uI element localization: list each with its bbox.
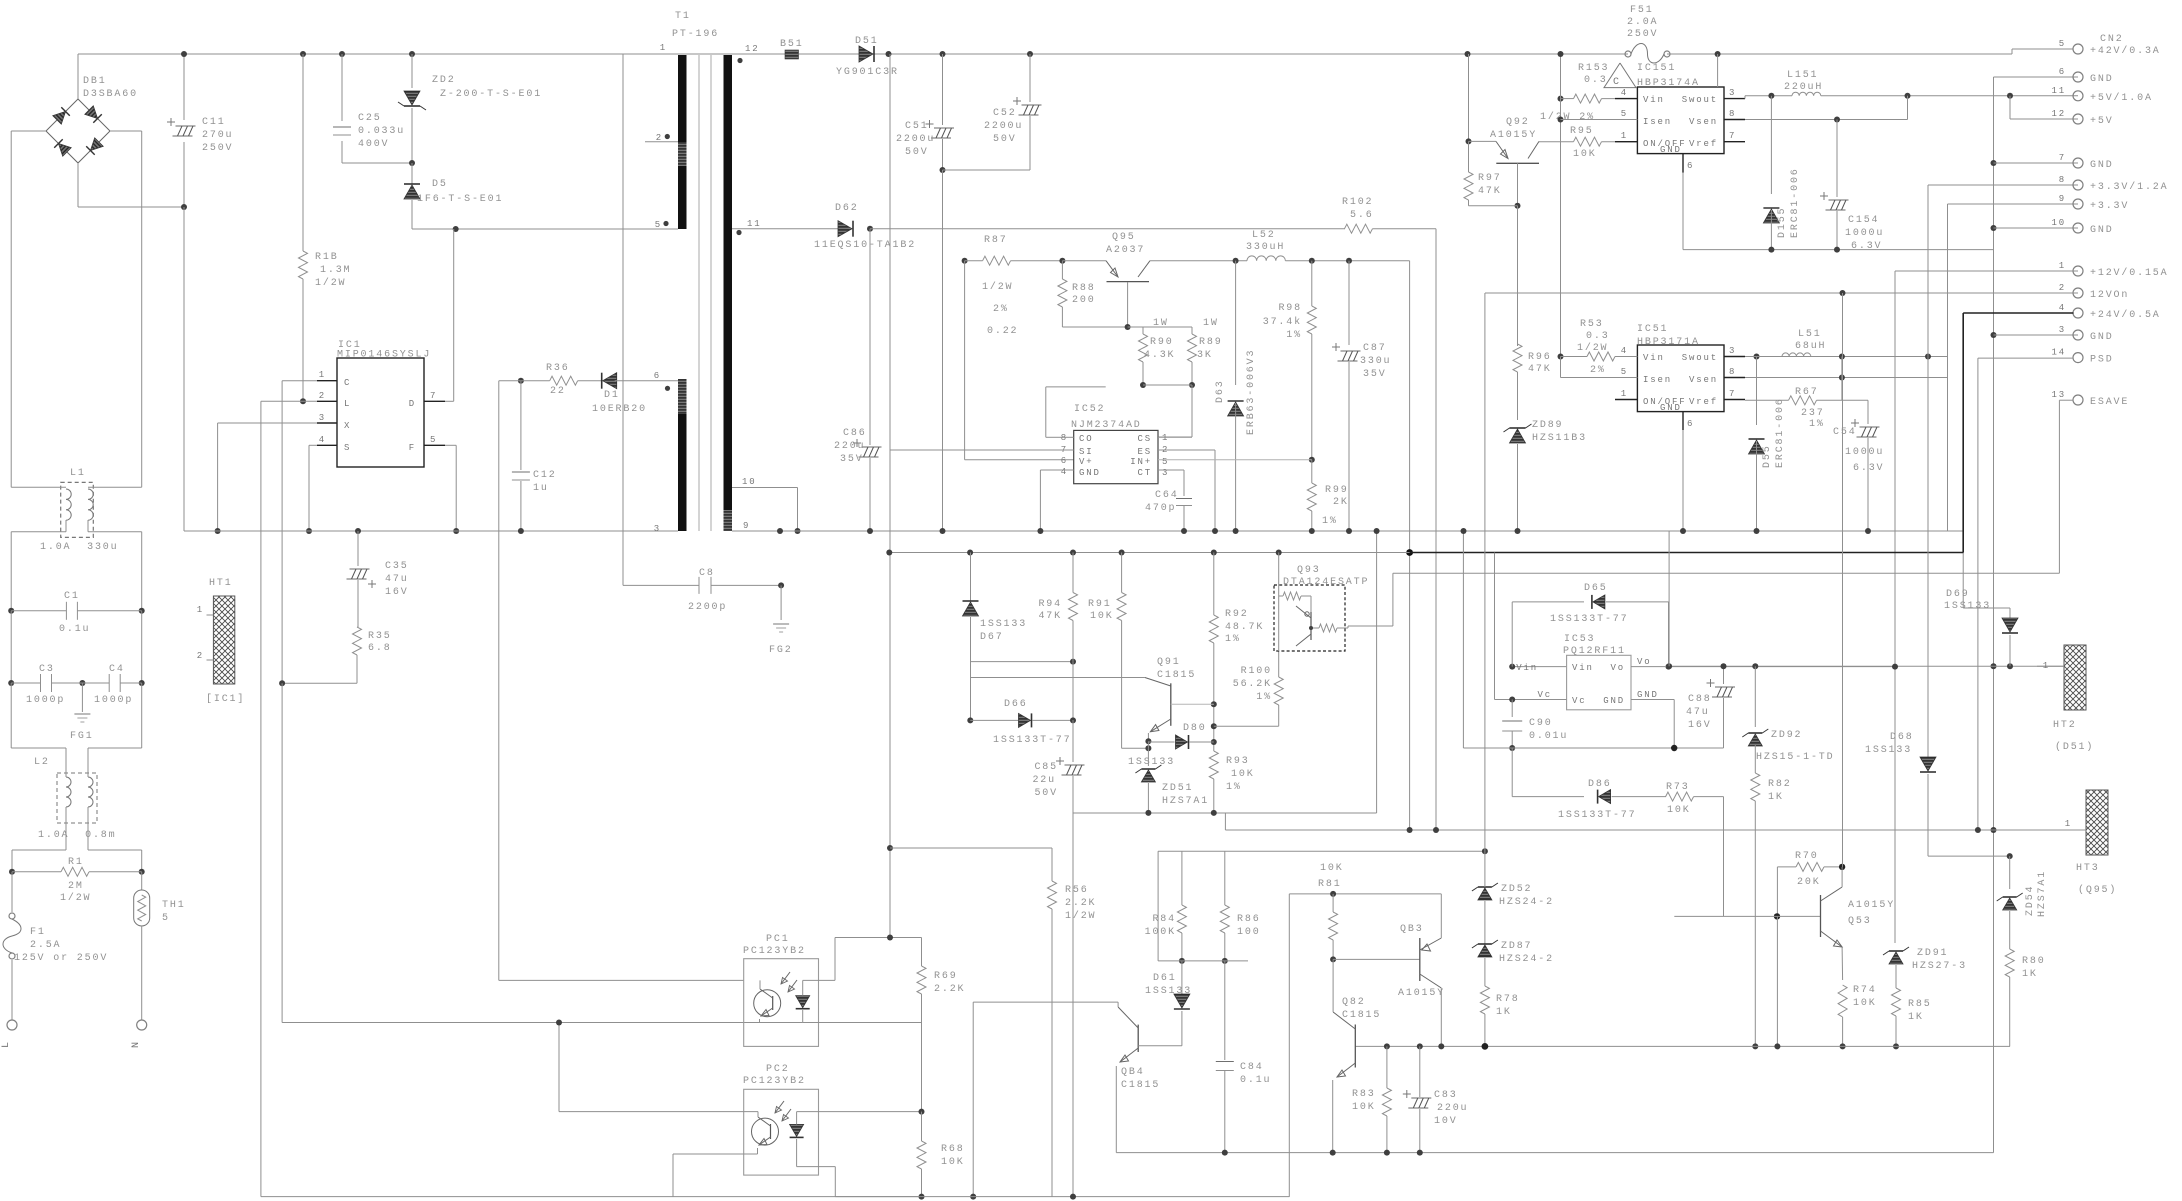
svg-text:PC123YB2: PC123YB2	[743, 946, 806, 957]
IC1 pin 7 D	[424, 400, 445, 402]
svg-text:L151: L151	[1787, 70, 1818, 81]
svg-text:237: 237	[1801, 408, 1825, 419]
IC51 pin 3 Swout	[1724, 356, 1745, 358]
svg-text:+42V/0.3A: +42V/0.3A	[2090, 45, 2161, 57]
svg-text:PC1: PC1	[766, 934, 790, 945]
svg-text:DB1: DB1	[83, 76, 107, 87]
svg-text:1K: 1K	[1908, 1012, 1924, 1023]
svg-text:IC53: IC53	[1564, 634, 1595, 645]
diode D69	[1963, 607, 2010, 609]
svg-text:L51: L51	[1798, 329, 1822, 340]
svg-text:R74: R74	[1853, 985, 1877, 996]
svg-text:2.2K: 2.2K	[1065, 898, 1096, 909]
IC51 pin 6 GND	[1682, 412, 1684, 430]
capacitor C3	[8, 680, 14, 686]
svg-text:IN+: IN+	[1130, 457, 1152, 467]
svg-text:SI: SI	[1079, 447, 1094, 457]
svg-text:10ERB20: 10ERB20	[592, 404, 647, 415]
resistor R82	[1754, 745, 1756, 773]
IC1 pin 1 C	[317, 380, 337, 382]
capacitor C86	[869, 229, 871, 445]
diode D66	[1019, 713, 1031, 727]
svg-text:2200p: 2200p	[688, 602, 727, 613]
svg-text:C52: C52	[993, 108, 1017, 119]
svg-text:1%: 1%	[1225, 634, 1241, 645]
resistor R97	[1468, 141, 1470, 172]
svg-text:8: 8	[2059, 175, 2066, 185]
svg-text:220u: 220u	[834, 441, 865, 452]
svg-text:CO: CO	[1079, 434, 1094, 444]
svg-text:CN2: CN2	[2100, 34, 2124, 45]
transformer T1 primary bar lower	[678, 379, 687, 414]
svg-text:250V: 250V	[202, 143, 233, 154]
svg-text:9: 9	[2059, 194, 2066, 204]
svg-text:330uH: 330uH	[1246, 242, 1285, 253]
svg-text:(D51): (D51)	[2055, 741, 2094, 753]
svg-text:1: 1	[2059, 261, 2066, 271]
svg-text:R99: R99	[1325, 485, 1349, 496]
svg-text:D86: D86	[1588, 779, 1612, 790]
svg-text:1000u: 1000u	[1845, 447, 1884, 458]
svg-text:10: 10	[2051, 218, 2066, 228]
wire snubber to T1 pin5 row	[412, 228, 678, 230]
wire emitter node	[1147, 741, 1149, 748]
CN2 pin 8 +3.3V/1.2A	[2073, 180, 2083, 190]
svg-text:1.0A 0.8m: 1.0A 0.8m	[38, 830, 117, 841]
svg-text:C64: C64	[1155, 490, 1179, 501]
svg-text:R67: R67	[1795, 387, 1819, 398]
svg-text:10K: 10K	[1231, 769, 1255, 780]
svg-text:GND: GND	[1079, 468, 1101, 478]
svg-text:Vin: Vin	[1516, 663, 1538, 673]
svg-text:R68: R68	[941, 1144, 965, 1155]
svg-text:D66: D66	[1004, 699, 1028, 710]
zener ZD92	[1754, 666, 1756, 727]
svg-text:T1: T1	[675, 11, 691, 22]
svg-text:5: 5	[1621, 109, 1628, 119]
svg-text:GND: GND	[1603, 696, 1625, 706]
svg-text:1%: 1%	[1286, 330, 1302, 341]
svg-text:47K: 47K	[1528, 364, 1552, 375]
svg-text:C8: C8	[699, 568, 715, 579]
svg-text:35V: 35V	[840, 454, 864, 465]
svg-text:IC151: IC151	[1637, 63, 1676, 74]
svg-text:1.0A 330u: 1.0A 330u	[40, 542, 119, 553]
wire L1 wiring	[10, 131, 12, 487]
svg-text:D55: D55	[1762, 444, 1773, 468]
CN2 pin 10 GND	[2073, 223, 2083, 233]
svg-text:PQ12RF11: PQ12RF11	[1563, 646, 1626, 657]
svg-text:IC51: IC51	[1637, 324, 1668, 335]
svg-text:S: S	[344, 443, 351, 453]
IC151 pin 7 Vref	[1724, 141, 1745, 143]
svg-text:C4: C4	[109, 664, 125, 675]
svg-text:B51: B51	[780, 39, 804, 50]
svg-text:1SS133T-77: 1SS133T-77	[993, 735, 1072, 746]
svg-text:8: 8	[1729, 367, 1736, 377]
capacitor C87	[1348, 261, 1350, 345]
capacitor C88	[1723, 666, 1725, 684]
wire bottom GND row right	[1116, 1152, 1993, 1154]
zener ZD51	[1147, 748, 1149, 766]
IC U5 IC53 PQ12RF11	[1567, 655, 1631, 710]
diode D61	[1181, 961, 1183, 995]
optocoupler PC2	[744, 1089, 819, 1175]
capacitor C8	[622, 531, 624, 585]
IC51 pin 5	[1561, 377, 1638, 379]
svg-text:C85: C85	[1034, 762, 1058, 773]
svg-text:0.3: 0.3	[1586, 331, 1610, 342]
diode D1	[578, 380, 602, 382]
resistor R67	[1789, 396, 1817, 405]
terminal L	[7, 1020, 17, 1030]
svg-text:1000p: 1000p	[94, 695, 133, 706]
svg-text:6: 6	[654, 371, 661, 381]
svg-text:R73: R73	[1666, 782, 1690, 793]
svg-text:1/2W: 1/2W	[982, 281, 1013, 293]
resistor R36	[550, 376, 578, 385]
svg-text:16V: 16V	[1688, 720, 1712, 731]
svg-text:R82: R82	[1768, 779, 1792, 790]
svg-text:HZS11B3: HZS11B3	[1532, 433, 1587, 444]
wire QB3 collector down	[1440, 988, 1442, 1046]
IC53 Vo row	[1631, 666, 1895, 668]
svg-text:1F6-T-S-E01: 1F6-T-S-E01	[417, 194, 503, 205]
svg-text:D1: D1	[604, 390, 620, 401]
svg-text:D65: D65	[1584, 583, 1608, 594]
svg-text:2M: 2M	[68, 881, 84, 892]
svg-text:ERB63-006V3: ERB63-006V3	[1246, 349, 1257, 435]
IC151 pin 8 Vsen	[1724, 119, 1745, 121]
svg-text:C90: C90	[1529, 718, 1553, 729]
IC U1 IC1 MIP0146SYSLJ	[337, 358, 424, 467]
svg-text:5: 5	[430, 435, 437, 445]
capacitor C54	[1867, 400, 1869, 424]
wire mid rail y552.5	[889, 552, 1409, 554]
svg-text:2: 2	[319, 391, 326, 401]
wire ESAVE net	[2059, 399, 2073, 401]
diode D51	[859, 46, 873, 62]
wire Q95 collector row L52	[1150, 260, 1247, 262]
svg-text:4: 4	[1621, 88, 1628, 98]
svg-text:100K: 100K	[1145, 927, 1176, 938]
svg-text:0.033u: 0.033u	[358, 126, 405, 137]
svg-text:HT3: HT3	[2076, 863, 2100, 874]
svg-text:12: 12	[2051, 109, 2066, 119]
svg-text:Vo: Vo	[1610, 663, 1625, 673]
svg-text:C: C	[344, 378, 351, 388]
svg-text:47K: 47K	[1478, 186, 1502, 197]
wire +24V pin4 black	[1963, 312, 2073, 314]
T1 pin 11	[732, 228, 839, 230]
svg-text:7: 7	[2059, 153, 2066, 163]
capacitor C154	[1836, 120, 1838, 198]
diode D55	[1756, 357, 1758, 426]
capacitor C1	[8, 608, 14, 614]
svg-text:R83: R83	[1352, 1089, 1376, 1100]
svg-text:3K: 3K	[1197, 350, 1213, 361]
svg-text:Vref: Vref	[1689, 397, 1718, 407]
svg-text:2: 2	[197, 651, 204, 661]
svg-text:NJM2374AD: NJM2374AD	[1071, 420, 1142, 431]
svg-text:D51: D51	[855, 36, 879, 47]
svg-text:R95: R95	[1570, 126, 1594, 137]
svg-text:HBP3171A: HBP3171A	[1637, 337, 1700, 348]
CN2 pin 11 +5V/1.0A	[2073, 91, 2083, 101]
svg-text:D3SBA60: D3SBA60	[83, 89, 138, 100]
IC51 pin 8 Vsen	[1724, 377, 1745, 379]
T1 pin 12	[732, 53, 785, 55]
svg-text:L52: L52	[1252, 230, 1276, 241]
svg-text:GND: GND	[1660, 145, 1682, 155]
svg-text:1SS133T-77: 1SS133T-77	[1550, 614, 1629, 625]
inductor L52	[1247, 256, 1285, 261]
svg-text:5: 5	[162, 913, 170, 924]
svg-text:C87: C87	[1363, 343, 1387, 354]
svg-text:GND: GND	[2090, 225, 2114, 236]
svg-text:D63: D63	[1215, 379, 1226, 403]
svg-text:4: 4	[319, 435, 326, 445]
svg-text:D80: D80	[1183, 723, 1207, 734]
svg-text:Vin: Vin	[1643, 353, 1665, 363]
svg-text:Isen: Isen	[1643, 117, 1672, 127]
svg-text:FG2: FG2	[769, 645, 793, 656]
svg-text:R91: R91	[1088, 599, 1112, 610]
resistor R73	[1666, 792, 1694, 801]
svg-text:6: 6	[2059, 67, 2066, 77]
wire +42V sense vertical	[889, 54, 891, 937]
transistor QB4 npn	[1137, 1025, 1139, 1052]
svg-text:3: 3	[1729, 346, 1736, 356]
svg-text:4.3K: 4.3K	[1144, 350, 1175, 361]
svg-text:12: 12	[745, 44, 760, 54]
svg-text:37.4k: 37.4k	[1263, 316, 1302, 328]
svg-text:R84: R84	[1152, 914, 1176, 925]
svg-text:2.2K: 2.2K	[934, 984, 965, 995]
ground FG2	[773, 623, 789, 625]
svg-text:ZD51: ZD51	[1162, 783, 1193, 794]
transistor Q93 DTA124ESATP	[1274, 585, 1345, 651]
wire PC1 led anode to R69	[834, 938, 836, 981]
CN2 pin 4 +24V/0.5A	[2073, 308, 2083, 318]
wire +24V down to black node	[1409, 261, 1411, 830]
ferrite bead B51	[785, 50, 799, 59]
inductor L2	[57, 773, 97, 823]
svg-text:47u: 47u	[1686, 707, 1710, 718]
svg-text:0.1u: 0.1u	[59, 624, 90, 635]
svg-text:+24V/0.5A: +24V/0.5A	[2090, 309, 2161, 321]
svg-text:2.5A: 2.5A	[30, 940, 61, 951]
svg-text:50V: 50V	[993, 134, 1017, 145]
svg-text:R92: R92	[1225, 609, 1249, 620]
CN2 pin 14 PSD	[2073, 353, 2083, 363]
transformer T1 primary bar upper	[678, 55, 687, 142]
connector HT3	[2086, 790, 2108, 855]
svg-text:R93: R93	[1226, 756, 1250, 767]
svg-text:0.1u: 0.1u	[1240, 1075, 1271, 1086]
svg-text:+5V/1.0A: +5V/1.0A	[2090, 92, 2153, 104]
wire Q92 base net down to R96	[1517, 206, 1519, 344]
diode D67	[970, 553, 972, 602]
svg-text:5: 5	[1621, 367, 1628, 377]
svg-text:R102: R102	[1342, 197, 1373, 208]
svg-text:D: D	[409, 399, 416, 409]
svg-text:56.2K: 56.2K	[1233, 679, 1272, 690]
svg-text:R69: R69	[934, 971, 958, 982]
diode D68	[1927, 357, 1929, 759]
IC151 pin 3 Swout	[1724, 98, 1745, 100]
svg-text:C54: C54	[1833, 427, 1857, 438]
svg-text:+12V/0.15A: +12V/0.15A	[2090, 267, 2169, 279]
svg-text:C1: C1	[64, 591, 80, 602]
svg-text:GND: GND	[2090, 74, 2114, 85]
svg-text:R70: R70	[1795, 851, 1819, 862]
svg-text:R85: R85	[1908, 999, 1932, 1010]
transistor QB3 pnp	[1419, 938, 1421, 981]
svg-text:220uH: 220uH	[1784, 82, 1823, 93]
svg-text:IC52: IC52	[1074, 404, 1105, 415]
CN2 pin 5 +42V/0.3A	[2073, 44, 2083, 54]
optocoupler PC1	[744, 959, 819, 1047]
wire QB4 collector down	[972, 1002, 974, 1197]
CN2 pin 7 GND	[2073, 158, 2083, 168]
svg-text:ZD91: ZD91	[1917, 948, 1948, 959]
transistor Q92 pnp	[1465, 51, 1471, 57]
zener ZD87	[1484, 901, 1486, 944]
svg-text:R97: R97	[1478, 173, 1502, 184]
wire C11 to primary ground rail	[183, 207, 185, 531]
svg-text:250V: 250V	[1627, 29, 1658, 40]
resistor R87	[962, 258, 968, 264]
capacitor C90	[1511, 700, 1513, 718]
CN2 pin 9 +3.3V	[2073, 199, 2083, 209]
wire C1 to C3 rows	[10, 611, 12, 683]
wire D62 row to R102	[870, 228, 1345, 230]
wire rail to R153 node	[1560, 54, 1562, 357]
svg-text:1.3M: 1.3M	[320, 265, 351, 276]
resistor R92	[1213, 553, 1215, 616]
svg-text:6.3V: 6.3V	[1851, 241, 1882, 252]
capacitor C51	[940, 51, 946, 57]
svg-text:1%: 1%	[1322, 516, 1338, 527]
IC51 pin 1	[1615, 399, 1637, 401]
svg-text:CT: CT	[1137, 468, 1152, 478]
svg-text:1: 1	[2043, 661, 2050, 671]
svg-text:HT2: HT2	[2053, 720, 2077, 731]
IC1 pin 3 X	[317, 422, 337, 424]
diode D155	[1770, 96, 1772, 194]
svg-text:Q93: Q93	[1297, 565, 1321, 576]
resistor R96	[1517, 344, 1519, 346]
svg-text:GND: GND	[1660, 403, 1682, 413]
svg-text:R81: R81	[1318, 879, 1342, 890]
resistor R153	[1558, 96, 1564, 102]
svg-text:2%: 2%	[1590, 365, 1606, 376]
svg-text:Isen: Isen	[1643, 375, 1672, 385]
IC151 pin 5	[1561, 119, 1638, 121]
IC53 GND wire	[1631, 699, 1674, 701]
svg-text:1SS133: 1SS133	[1944, 601, 1991, 612]
svg-text:1K: 1K	[2022, 969, 2038, 980]
svg-text:3: 3	[2059, 325, 2066, 335]
T1 pin 9	[732, 530, 1963, 532]
svg-text:R53: R53	[1580, 319, 1604, 330]
svg-text:8: 8	[1729, 109, 1736, 119]
wire PSD net	[1978, 357, 2074, 359]
capacitor C11	[183, 54, 185, 120]
svg-text:PSD: PSD	[2090, 355, 2114, 366]
svg-text:1: 1	[660, 43, 667, 53]
wire Vc net vertical	[1494, 553, 1496, 700]
svg-text:HBP3174A: HBP3174A	[1637, 78, 1700, 89]
wire PC1 emitter row	[803, 1022, 922, 1024]
svg-text:13: 13	[2051, 390, 2066, 400]
svg-text:HZS7A1: HZS7A1	[2037, 870, 2048, 917]
svg-text:HZS27-3: HZS27-3	[1912, 961, 1967, 972]
svg-text:1W: 1W	[1203, 318, 1219, 329]
wire Q53 emitter down	[1841, 947, 1844, 980]
diode D5	[411, 163, 413, 184]
wire GND row y748	[1463, 747, 1723, 749]
wire black +24V row	[1406, 549, 1413, 556]
wire PC2 collector row	[559, 1111, 758, 1113]
svg-text:D68: D68	[1890, 732, 1914, 743]
svg-text:ESAVE: ESAVE	[2090, 397, 2129, 408]
resistor R102	[1345, 224, 1373, 233]
svg-text:100: 100	[1237, 927, 1261, 938]
svg-text:4: 4	[1621, 346, 1628, 356]
svg-text:2200u: 2200u	[984, 121, 1023, 132]
svg-text:10K: 10K	[1573, 149, 1597, 160]
svg-text:Q95: Q95	[1112, 232, 1136, 243]
T1 pin 10	[732, 487, 798, 489]
svg-text:6: 6	[1061, 456, 1068, 466]
svg-text:C3: C3	[39, 664, 55, 675]
connector HT2	[2064, 645, 2086, 710]
ground FG1	[81, 683, 83, 712]
svg-text:50V: 50V	[905, 147, 929, 158]
svg-text:R100: R100	[1241, 666, 1272, 677]
svg-text:7: 7	[1729, 131, 1736, 141]
svg-text:9: 9	[743, 521, 750, 531]
wire Q91 collector row	[971, 677, 1145, 679]
wire QB3 base row	[1333, 958, 1420, 960]
resistor R53	[1558, 354, 1564, 360]
svg-text:4: 4	[2059, 303, 2066, 313]
svg-text:C88: C88	[1688, 694, 1712, 705]
svg-text:68uH: 68uH	[1795, 341, 1826, 352]
svg-text:1SS133: 1SS133	[1128, 757, 1175, 768]
svg-text:3: 3	[1729, 88, 1736, 98]
svg-text:1/2W 2%: 1/2W 2%	[1540, 111, 1595, 123]
svg-text:L2: L2	[34, 757, 50, 768]
svg-text:35V: 35V	[1363, 369, 1387, 380]
resistor R80	[2005, 949, 2014, 977]
svg-text:R35: R35	[368, 631, 392, 642]
svg-text:1SS133T-77: 1SS133T-77	[1558, 810, 1637, 821]
resistor R95	[1574, 137, 1602, 146]
svg-text:1: 1	[197, 605, 204, 615]
wire L2 wiring	[10, 683, 12, 748]
resistor R69	[917, 966, 926, 994]
inductor L1	[61, 482, 94, 537]
IC1 pin 4 S	[317, 444, 337, 446]
svg-text:1SS133: 1SS133	[980, 619, 1027, 630]
diode D86	[1511, 748, 1513, 797]
svg-text:Vc: Vc	[1537, 690, 1552, 700]
svg-text:QB4: QB4	[1121, 1067, 1145, 1078]
svg-text:400V: 400V	[358, 139, 389, 150]
